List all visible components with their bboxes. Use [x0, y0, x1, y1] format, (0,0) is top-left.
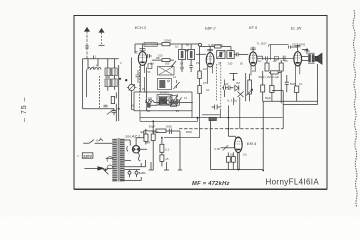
grid resistor EL3N — [295, 86, 299, 93]
caps under MF1 — [180, 66, 193, 69]
mains switch top lever — [89, 140, 94, 144]
ground stub 3 — [178, 169, 182, 171]
bottom bus y169.6 — [211, 101, 264, 169]
gnd-ish bus under EL3N — [263, 100, 318, 102]
osc grid line — [147, 68, 158, 111]
heater loop to pilot lamps — [123, 160, 146, 170]
grid-side bars left of tube — [135, 52, 138, 54]
grid cap EL3N — [289, 46, 291, 49]
MF1 transformer box primary — [179, 50, 186, 60]
MF2 box primary — [217, 51, 225, 59]
decoupling resistor on bus — [209, 117, 216, 120]
EBF2 tube — [206, 53, 214, 67]
bus y117.7 — [140, 117, 283, 119]
series caps after resistor — [169, 129, 171, 135]
crossing X wires — [238, 92, 244, 98]
screen divider resistor 0,1 — [160, 144, 164, 152]
EL3N pin descenders — [296, 65, 300, 86]
antenna coil L1 — [88, 67, 94, 69]
detector drop wires — [234, 97, 240, 129]
cathode resistor — [270, 86, 274, 93]
small circles in coil cluster — [106, 76, 108, 78]
cathode electrolytic — [261, 85, 265, 92]
plate/screen wires EL3N to transformer — [302, 57, 309, 61]
terminal tick — [93, 56, 95, 59]
value speck labels — [96, 39, 310, 157]
electrolytic cap 50uF — [151, 134, 155, 141]
bus y128.7 partly dashed — [179, 128, 283, 130]
junction dot — [233, 79, 235, 81]
tuning gang box — [134, 92, 192, 111]
transformer secondary down — [283, 64, 317, 105]
coil mid vertical — [86, 70, 88, 98]
AZ1 tube — [132, 146, 139, 153]
EM4 top wire — [228, 106, 235, 138]
junction dots — [119, 78, 121, 80]
MF1 bottom leads — [182, 60, 191, 68]
osc freq label box — [144, 42, 157, 46]
primary winding — [112, 139, 117, 182]
cathode bypass box — [148, 64, 152, 69]
B+ feed y137.7 — [164, 118, 200, 138]
coil drops — [108, 59, 115, 91]
vertical wire x118.7 — [118, 65, 120, 121]
electrolytic cap 4uF — [144, 134, 148, 142]
power transformer core — [118, 138, 119, 182]
mains arrow — [84, 167, 97, 169]
ECH3 pin descenders — [140, 65, 144, 92]
detector caps — [224, 86, 230, 91]
gang dashed link — [139, 66, 141, 110]
grid stopper arrow — [223, 145, 228, 150]
antenna coil L2 — [95, 67, 101, 69]
coupling cap on A1 — [85, 46, 89, 48]
vertical wire x116.3 — [115, 93, 117, 122]
front-end left wire — [83, 59, 115, 109]
B+ junction — [197, 117, 199, 119]
wires right column — [263, 71, 297, 103]
dashed link front-end — [98, 76, 100, 109]
transformer taps right — [125, 140, 142, 181]
coupling cap — [285, 82, 289, 92]
series cap on wire — [104, 105, 108, 107]
vertical x283 from output — [272, 91, 283, 129]
MF1 top leads — [182, 44, 191, 50]
AVC feed wire — [202, 110, 220, 118]
wire MF1 to EBF2 — [196, 53, 206, 55]
pilot lamp 1 — [128, 171, 131, 174]
choke row y102.6 — [148, 101, 154, 103]
output transformer — [308, 54, 311, 62]
osc coil stack box3 — [157, 95, 172, 106]
tuning gang circle — [129, 84, 135, 90]
junction dots on buses — [228, 117, 230, 119]
ECH3 top bus — [135, 44, 199, 53]
diode triangle — [235, 85, 239, 91]
volume pot — [248, 80, 252, 94]
bus y109.5 — [132, 109, 135, 111]
winding box row1 right — [112, 68, 118, 76]
watermark squiggle right edge — [353, 10, 357, 207]
winding box row2 left — [105, 79, 111, 87]
ground stub 2 — [164, 162, 169, 170]
resistor on top bus — [162, 43, 170, 46]
MF1 trimmer circles — [185, 50, 187, 52]
top coupling run — [268, 45, 288, 47]
grid resistor dark — [146, 103, 150, 108]
link curves to transformer — [107, 165, 113, 170]
pilot lamp 2 — [135, 171, 138, 174]
EF9 tube — [249, 52, 257, 66]
MF1 transformer box secondary — [188, 50, 195, 60]
junction dot above transformer — [306, 49, 308, 51]
MF2 box secondary — [227, 51, 234, 59]
bus y121.3 — [140, 118, 198, 122]
osc coil stack box1 — [158, 67, 175, 76]
plate cap right of tube — [147, 54, 149, 58]
osc coil box4 hatched — [170, 96, 177, 107]
cap bars above gang — [136, 70, 141, 83]
vertical x180 — [179, 131, 181, 170]
trimmer arrows right — [174, 82, 182, 104]
detector area dashed screens — [216, 64, 218, 101]
AVC resistor 1 — [198, 71, 202, 79]
terminal circle — [199, 43, 202, 46]
secondary winding — [120, 139, 125, 182]
EM4 grid wire — [221, 147, 235, 149]
EBF2 pin descenders — [208, 66, 225, 85]
vertical bus x245.7 — [245, 73, 247, 101]
winding box row2 right — [112, 79, 118, 87]
transformer taps left — [95, 143, 113, 168]
vertical wire x129.5 — [131, 58, 133, 85]
trimmer cap with arrow — [112, 111, 117, 113]
EF9 pin descenders — [251, 56, 263, 75]
antenna A2 dashed arrow — [101, 32, 103, 45]
paper noise overlay — [0, 0, 1, 1]
antenna input wire — [83, 58, 119, 60]
filter resistor — [156, 129, 166, 133]
mains fuse mark — [99, 139, 103, 141]
220V box — [82, 153, 93, 158]
switch diagonal — [172, 61, 176, 66]
schematic frame — [74, 16, 327, 190]
band resistor — [111, 96, 114, 103]
speaker — [315, 56, 317, 61]
EBF2 grid wire — [201, 47, 232, 53]
screen row resistor — [162, 59, 170, 62]
EM4 tube — [234, 137, 242, 153]
EF9 plate load resistors — [265, 63, 269, 71]
AVC cap pair — [215, 105, 218, 110]
AVC resistor 2 — [198, 86, 202, 94]
ground stub 1 — [149, 162, 154, 170]
osc coil stack box2 — [158, 79, 172, 90]
switch lever bottom — [101, 167, 108, 174]
screen divider resistor u5 — [160, 155, 164, 162]
caps right of MF2 — [236, 52, 238, 56]
EF9 to EL3N coupling wire — [257, 57, 294, 59]
resistor between — [271, 71, 279, 74]
page number -75- rotated — [21, 97, 28, 122]
ECH3 tube — [138, 52, 146, 66]
EM4 cathode resistors — [226, 157, 230, 163]
vertical bus x199.5 — [199, 46, 201, 117]
A2 bottom bar — [99, 44, 105, 46]
antenna A1 arrow — [86, 30, 88, 59]
AZ1 anode wires — [136, 131, 148, 150]
EL3N tube — [294, 52, 302, 66]
winding box row1 left — [105, 68, 111, 76]
